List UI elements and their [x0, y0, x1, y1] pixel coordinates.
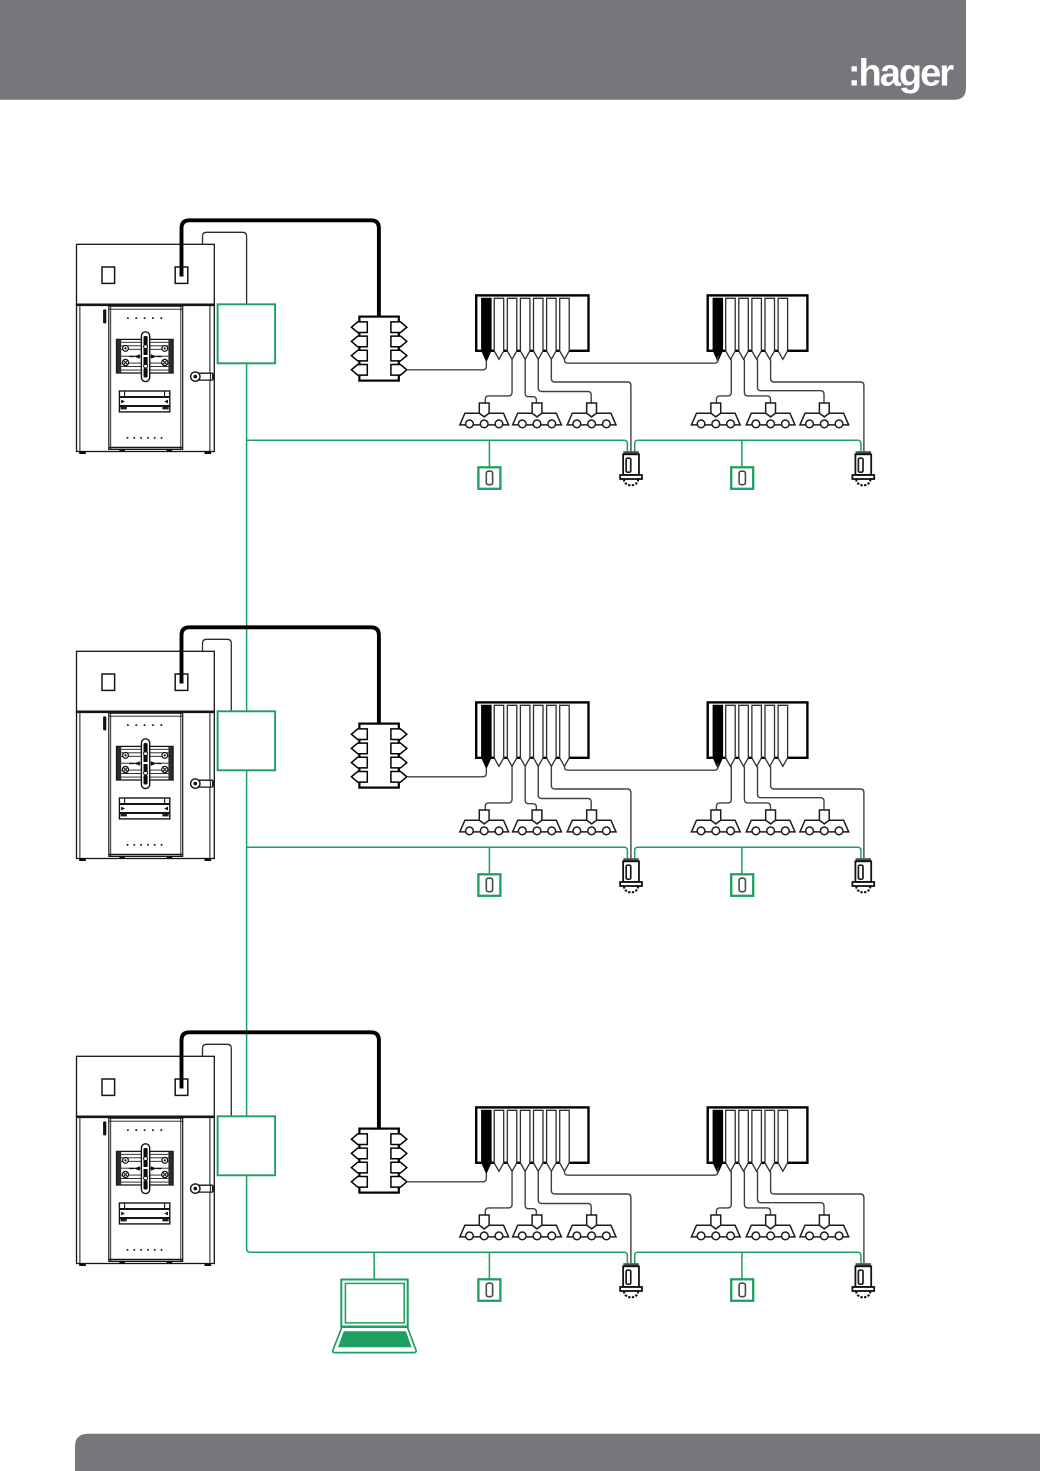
- board 2: door handle lock: [195, 780, 213, 787]
- board 3: terminal screws: [122, 1158, 167, 1178]
- board 2: pin 5 right: [391, 729, 407, 740]
- board 3: wire coupler to bank A bus module: [407, 1173, 487, 1182]
- board 3 load group 3: plug connector: [587, 1215, 597, 1229]
- board 1 load group 4: lamp circles: [697, 420, 734, 428]
- board 2 bank A: bus coupler module (black): [482, 705, 492, 768]
- board 2 load group 6: lamp circles: [806, 827, 843, 835]
- board 3: terminal capsule: [141, 1144, 149, 1194]
- board 2 load group 6: luminaire trapezoid: [800, 820, 849, 832]
- board 1: KNX bus line segment 1: [247, 440, 628, 451]
- board 1: wire coupler to bank A bus module: [407, 361, 487, 370]
- board 2 load group 4: lamp circles: [697, 827, 734, 835]
- board 1: wire bank A module 5 to load group 3: [538, 359, 591, 403]
- board 2: ventilation dots top row: [127, 724, 162, 726]
- board 1: pin 3 left: [351, 350, 367, 361]
- board 1: line coupler body: [359, 317, 398, 381]
- board 2 load group 6: plug connector: [819, 810, 829, 824]
- board 3: pin 2 left: [351, 1148, 367, 1159]
- board 3: wire bank A module 7 to bank B bus module: [564, 1168, 717, 1175]
- board 3 load group 5: lamp circles: [752, 1232, 789, 1240]
- board 2 load group 1: lamp circles: [466, 827, 503, 835]
- board 1: cabinet feet: [79, 449, 211, 454]
- board 2: cabinet door panel: [109, 713, 183, 856]
- board 3: wire bank A module 4 to load group 2: [525, 1171, 536, 1215]
- board 1 bank A: output module 5: [534, 298, 544, 359]
- board 2: ventilation dots bottom row: [127, 844, 163, 846]
- board 3 bus tap 1: body: [623, 1266, 639, 1287]
- board 1 bus tap 2: flange: [852, 475, 874, 479]
- board 1 bus tap 1: body: [623, 454, 639, 475]
- board 3 load group 6: luminaire trapezoid: [800, 1225, 849, 1237]
- board 3: bus drop to switch 2: [741, 1252, 743, 1279]
- board 2 switch 1: wall switch (green square): [478, 874, 500, 896]
- board 1 bus tap 1: flange: [620, 475, 642, 479]
- board 1 load group 4: plug connector: [711, 403, 721, 417]
- board 1 load group 6: plug connector: [819, 403, 829, 417]
- board 1 bank B: module bank rail box: [708, 295, 808, 350]
- board 3 bank B: output module 4: [752, 1110, 762, 1171]
- board 1: door handle lock: [195, 373, 213, 380]
- board 2 bank A: output module 3: [507, 705, 517, 766]
- board 1 switch 1: rocker: [486, 471, 492, 485]
- board 3: cabinet main body: [77, 1116, 215, 1263]
- board 3 bank B: bus coupler module (black): [713, 1110, 723, 1173]
- board 1: pin 7 right: [391, 350, 407, 361]
- board 2: wire bank B module 5 to bus tap 2: [771, 766, 864, 858]
- board 2 bus tap 1: cap: [623, 858, 638, 861]
- board 2: wire bank B module 3 to load group 5: [744, 766, 770, 810]
- board 3: wire bank B module 5 to bus tap 2: [771, 1171, 864, 1263]
- KNX backbone trunk lower segment with corner onto bus 3: [247, 1175, 251, 1252]
- board 3 load group 1: luminaire trapezoid: [460, 1225, 509, 1237]
- board 2 bank B: output module 5: [765, 705, 775, 766]
- board 1 bank A: module bank rail box: [476, 295, 588, 350]
- board 2: wire bank A module 7 to bank B bus module: [564, 763, 717, 770]
- board 1 bus tap 1: cap: [623, 451, 638, 454]
- board 2 bank A: output module 7: [560, 705, 570, 766]
- board 2: line coupler body: [359, 724, 398, 788]
- board 3 switch 2: rocker: [739, 1283, 745, 1297]
- board 2 bank B: output module 2: [726, 705, 736, 766]
- board 2 load group 1: plug connector: [479, 810, 489, 824]
- board 3 load group 4: plug connector: [711, 1215, 721, 1229]
- board 2 bank A: output module 2: [494, 705, 504, 766]
- board 2: wire bank A module 6 to bus tap 1: [551, 766, 631, 858]
- board 1 bank B: output module 2: [726, 298, 736, 359]
- board 1 bank A: bus coupler module (black): [482, 298, 492, 361]
- board 1: mains supply cable (thick): [182, 220, 379, 316]
- board 2: wire bank B module 2 to load group 4: [716, 766, 731, 810]
- board 3 bank B: output module 6: [778, 1110, 788, 1171]
- board 1: ventilation dots top row: [127, 317, 162, 319]
- board 2: pin 3 left: [351, 757, 367, 768]
- board 1 bus tap 2: cap: [856, 451, 871, 454]
- board 3: wire bank B module 3 to load group 5: [744, 1171, 770, 1215]
- board 2: wire bank B module 4 to load group 6: [758, 766, 825, 810]
- board 3: knockout square right (cable entry): [175, 1079, 188, 1095]
- board 1 load group 5: luminaire trapezoid: [746, 413, 795, 425]
- board 3: bus interface box (green outline): [218, 1116, 276, 1175]
- KNX backbone trunk segment board2 to board3: [246, 770, 248, 1116]
- board 1: ventilation dots bottom row: [127, 437, 163, 439]
- board 1 bus tap 1: dome: [624, 479, 638, 485]
- board 2: door hinge latch: [103, 716, 106, 730]
- board 1: terminal screws: [122, 346, 167, 366]
- board 1 load group 4: luminaire trapezoid: [691, 413, 740, 425]
- board 3: meter window slot: [119, 1203, 169, 1224]
- board 2 bank B: output module 3: [739, 705, 749, 766]
- board 2 bank A: module bank rail box: [476, 702, 588, 757]
- board 3 bank A: output module 6: [547, 1110, 557, 1171]
- board 3: wire bank B module 4 to load group 6: [758, 1171, 825, 1215]
- board 3 bank B: output module 5: [765, 1110, 775, 1171]
- board 1: wire bank A module 3 to load group 1: [485, 359, 512, 403]
- board 2: wire bank A module 3 to load group 1: [485, 766, 512, 810]
- board 2 load group 1: luminaire trapezoid: [460, 820, 509, 832]
- board 3 load group 3: lamp circles: [573, 1232, 610, 1240]
- board 1 bank B: output module 4: [752, 298, 762, 359]
- board 3 bank A: output module 7: [560, 1110, 570, 1171]
- board 3: cabinet door panel: [109, 1118, 183, 1261]
- board 1 bank B: output module 6: [778, 298, 788, 359]
- board 1: wire bank A module 4 to load group 2: [525, 359, 536, 403]
- board 3: KNX bus line segment 2: [635, 1252, 861, 1263]
- board 1: wire bank B module 5 to bus tap 2: [771, 359, 864, 451]
- board 1 switch 1: wall switch (green square): [478, 467, 500, 489]
- board 3 bus tap 2: flange: [852, 1287, 874, 1291]
- board 1: cabinet door panel: [109, 306, 183, 449]
- board 3 bus tap 2: body: [855, 1266, 871, 1287]
- board 3 load group 1: lamp circles: [466, 1232, 503, 1240]
- board 2: pin 2 left: [351, 743, 367, 754]
- board 2: pin 4 left: [351, 772, 367, 783]
- board 3: door handle lock: [195, 1185, 213, 1192]
- board 2 bus tap 2: window: [858, 865, 863, 879]
- board 2: knockout square right (cable entry): [175, 674, 188, 690]
- board 3 load group 4: lamp circles: [697, 1232, 734, 1240]
- board 1 bank B: output module 3: [739, 298, 749, 359]
- board 1 bank A: output module 3: [507, 298, 517, 359]
- board 1 load group 2: lamp circles: [518, 420, 555, 428]
- board 1: door hinge latch: [103, 309, 106, 323]
- board 2 bank A: output module 6: [547, 705, 557, 766]
- board 3: mains supply cable (thick): [182, 1032, 379, 1128]
- board 2: meter terminal block: [117, 746, 174, 780]
- board 1: bus drop to switch 2: [741, 440, 743, 467]
- board 3 bank A: output module 2: [494, 1110, 504, 1171]
- board 3: pin 5 right: [391, 1134, 407, 1145]
- laptop keyboard (green fill): [338, 1331, 412, 1347]
- board 3 load group 2: luminaire trapezoid: [513, 1225, 562, 1237]
- board 2 load group 5: luminaire trapezoid: [746, 820, 795, 832]
- board 2 bus tap 1: dome: [624, 886, 638, 892]
- board 3: cabinet top terminal compartment: [77, 1056, 215, 1116]
- board 3 load group 4: luminaire trapezoid: [691, 1225, 740, 1237]
- board 2 switch 2: wall switch (green square): [731, 874, 753, 896]
- footer bar: [75, 1434, 1040, 1471]
- board 1 load group 3: plug connector: [587, 403, 597, 417]
- board 3 load group 3: luminaire trapezoid: [567, 1225, 616, 1237]
- board 1 load group 3: luminaire trapezoid: [567, 413, 616, 425]
- board 1 bus tap 2: body: [855, 454, 871, 475]
- board 3: pin 6 right: [391, 1148, 407, 1159]
- board 1: wire bank A module 7 to bank B bus module: [564, 356, 717, 363]
- board 1 load group 1: plug connector: [479, 403, 489, 417]
- board 3 bus tap 1: window: [626, 1270, 631, 1284]
- board 2: bus interface box (green outline): [218, 711, 276, 770]
- board 3: pointer marks: [134, 1166, 156, 1170]
- header bar: [0, 0, 966, 100]
- board 2 load group 2: luminaire trapezoid: [513, 820, 562, 832]
- board 1: pointer marks: [134, 354, 156, 358]
- board 2: mains supply cable (thick): [182, 627, 379, 723]
- board 1 load group 2: plug connector: [532, 403, 542, 417]
- board 2: pin 7 right: [391, 757, 407, 768]
- board 2: knockout square left: [102, 674, 115, 690]
- board 3: wire bank A module 3 to load group 1: [485, 1171, 512, 1215]
- board 2 load group 3: luminaire trapezoid: [567, 820, 616, 832]
- board 3: bus drop to switch 1: [488, 1252, 490, 1279]
- board 2: KNX bus line segment 1: [247, 847, 628, 858]
- board 3 bus tap 2: cap: [856, 1263, 871, 1266]
- board 1 bank A: output module 7: [560, 298, 570, 359]
- board 2 switch 2: rocker: [739, 878, 745, 892]
- board 2 bank B: output module 4: [752, 705, 762, 766]
- board 3 bank A: output module 5: [534, 1110, 544, 1171]
- board 2 load group 4: plug connector: [711, 810, 721, 824]
- board 2 bank B: bus coupler module (black): [713, 705, 723, 768]
- board 2: pin 8 right: [391, 772, 407, 783]
- board 1: wire bank B module 3 to load group 5: [744, 359, 770, 403]
- board 2: KNX bus line segment 2: [635, 847, 861, 858]
- board 2: cabinet main body: [77, 711, 215, 858]
- board 2: wire bank A module 5 to load group 3: [538, 766, 591, 810]
- board 1: terminal capsule: [141, 332, 149, 382]
- board 2: pointer marks: [134, 761, 156, 765]
- board 3: ventilation dots top row: [127, 1129, 162, 1131]
- board 2: control wire cabinet to coupler box: [203, 639, 232, 711]
- board 1: wire bank A module 6 to bus tap 1: [551, 359, 631, 451]
- board 1: wire bank B module 2 to load group 4: [716, 359, 731, 403]
- board 3: control wire cabinet to coupler box: [203, 1044, 232, 1116]
- board 2 load group 4: luminaire trapezoid: [691, 820, 740, 832]
- board 3: wire bank B module 2 to load group 4: [716, 1171, 731, 1215]
- board 3 bank B: output module 3: [739, 1110, 749, 1171]
- board 3 switch 2: wall switch (green square): [731, 1279, 753, 1301]
- board 2 bus tap 2: dome: [856, 886, 870, 892]
- board 3 switch 1: rocker: [486, 1283, 492, 1297]
- board 3 load group 6: plug connector: [819, 1215, 829, 1229]
- board 3 bank B: output module 2: [726, 1110, 736, 1171]
- board 2: wire coupler to bank A bus module: [407, 768, 487, 777]
- board 3 bus tap 1: cap: [623, 1263, 638, 1266]
- board 1 load group 6: luminaire trapezoid: [800, 413, 849, 425]
- board 3 bank A: bus coupler module (black): [482, 1110, 492, 1173]
- KNX backbone trunk segment board1 to board2: [246, 363, 248, 711]
- board 3: pin 3 left: [351, 1162, 367, 1173]
- board 3: meter terminal block: [117, 1151, 174, 1185]
- board 2 load group 2: plug connector: [532, 810, 542, 824]
- board 2 load group 3: lamp circles: [573, 827, 610, 835]
- board 1 bank A: output module 4: [520, 298, 530, 359]
- board 2 bank B: module bank rail box: [708, 702, 808, 757]
- laptop (ETS programming PC) lid: [341, 1280, 407, 1327]
- board 2 switch 1: rocker: [486, 878, 492, 892]
- board 2 bus tap 1: window: [626, 865, 631, 879]
- board 3: pin 1 left: [351, 1134, 367, 1145]
- board 3: door hinge latch: [103, 1121, 106, 1135]
- board 2: bus drop to switch 1: [488, 847, 490, 874]
- board 1: cabinet main body: [77, 304, 215, 451]
- board 2 load group 5: lamp circles: [752, 827, 789, 835]
- board 1 bus tap 2: window: [858, 458, 863, 472]
- board 3 bank A: module bank rail box: [476, 1107, 588, 1162]
- board 1: knockout square right (cable entry): [175, 267, 188, 283]
- board 1 load group 5: lamp circles: [752, 420, 789, 428]
- board 1 bank A: output module 6: [547, 298, 557, 359]
- board 3 load group 5: luminaire trapezoid: [746, 1225, 795, 1237]
- board 2: pin 6 right: [391, 743, 407, 754]
- board 2: meter window slot: [119, 798, 169, 819]
- board 1 bus tap 1: window: [626, 458, 631, 472]
- board 1: cabinet top terminal compartment: [77, 244, 215, 304]
- board 2 bank A: output module 5: [534, 705, 544, 766]
- board 1 load group 2: luminaire trapezoid: [513, 413, 562, 425]
- board 3: line coupler body: [359, 1129, 398, 1193]
- board 1 switch 2: wall switch (green square): [731, 467, 753, 489]
- board 3: pin 4 left: [351, 1177, 367, 1188]
- board 1: knockout square left: [102, 267, 115, 283]
- board 1: bus drop to switch 1: [488, 440, 490, 467]
- laptop base: [333, 1327, 416, 1353]
- board 3 load group 2: lamp circles: [518, 1232, 555, 1240]
- board 1: bus interface box (green outline): [218, 304, 276, 363]
- board 2: terminal capsule: [141, 739, 149, 789]
- board 3 bus tap 2: dome: [856, 1291, 870, 1297]
- board 2: cabinet top terminal compartment: [77, 651, 215, 711]
- board 1 load group 1: luminaire trapezoid: [460, 413, 509, 425]
- board 3 bus tap 1: flange: [620, 1287, 642, 1291]
- board 1 load group 1: lamp circles: [466, 420, 503, 428]
- board 3 bank B: module bank rail box: [708, 1107, 808, 1162]
- board 1: pin 1 left: [351, 322, 367, 333]
- board 3: knockout square left: [102, 1079, 115, 1095]
- board 2 load group 5: plug connector: [766, 810, 776, 824]
- board 1 bank A: output module 2: [494, 298, 504, 359]
- board 1: pin 4 left: [351, 365, 367, 376]
- board 2: terminal screws: [122, 753, 167, 773]
- board 3: wire bank A module 5 to load group 3: [538, 1171, 591, 1215]
- board 2 bank A: output module 4: [520, 705, 530, 766]
- board 1: pin 5 right: [391, 322, 407, 333]
- board 2: pin 1 left: [351, 729, 367, 740]
- board 1 switch 2: rocker: [739, 471, 745, 485]
- board 1: meter window slot: [119, 391, 169, 412]
- board 3: ventilation dots bottom row: [127, 1249, 163, 1251]
- board 1: pin 6 right: [391, 336, 407, 347]
- board 2 bus tap 2: body: [855, 861, 871, 882]
- board 3: wire bank A module 6 to bus tap 1: [551, 1171, 631, 1263]
- board 1 load group 5: plug connector: [766, 403, 776, 417]
- board 3: cabinet feet: [79, 1261, 211, 1266]
- board 1 bus tap 2: dome: [856, 479, 870, 485]
- board 1: pin 2 left: [351, 336, 367, 347]
- board 3 bank A: output module 3: [507, 1110, 517, 1171]
- board 3: pin 8 right: [391, 1177, 407, 1188]
- board 1 load group 3: lamp circles: [573, 420, 610, 428]
- board 3 bank A: output module 4: [520, 1110, 530, 1171]
- board 3 load group 1: plug connector: [479, 1215, 489, 1229]
- board 2 bus tap 1: body: [623, 861, 639, 882]
- board 3 load group 6: lamp circles: [806, 1232, 843, 1240]
- board 2 bank B: output module 6: [778, 705, 788, 766]
- board 3 switch 1: wall switch (green square): [478, 1279, 500, 1301]
- board 2 load group 3: plug connector: [587, 810, 597, 824]
- board 3 bus tap 2: window: [858, 1270, 863, 1284]
- board 3 bus tap 1: dome: [624, 1291, 638, 1297]
- board 3 load group 5: plug connector: [766, 1215, 776, 1229]
- board 2 load group 2: lamp circles: [518, 827, 555, 835]
- svg-text::hager: :hager: [848, 53, 954, 95]
- board 1: KNX bus line segment 2: [635, 440, 861, 451]
- board 2: cabinet feet: [79, 856, 211, 861]
- board 1 bank B: output module 5: [765, 298, 775, 359]
- board 2: bus drop to switch 2: [741, 847, 743, 874]
- board 1: meter terminal block: [117, 339, 174, 373]
- board 3 load group 2: plug connector: [532, 1215, 542, 1229]
- board 1: control wire cabinet to coupler box: [203, 232, 247, 304]
- board 2 bus tap 1: flange: [620, 882, 642, 886]
- board 2: wire bank A module 4 to load group 2: [525, 766, 536, 810]
- board 1 bank B: bus coupler module (black): [713, 298, 723, 361]
- bus drop to laptop: [373, 1252, 375, 1279]
- board 1: pin 8 right: [391, 365, 407, 376]
- board 3: pin 7 right: [391, 1162, 407, 1173]
- board 1: wire bank B module 4 to load group 6: [758, 359, 825, 403]
- board 1 load group 6: lamp circles: [806, 420, 843, 428]
- board 2 bus tap 2: cap: [856, 858, 871, 861]
- board 3: KNX bus line segment 1: [251, 1252, 628, 1263]
- board 2 bus tap 2: flange: [852, 882, 874, 886]
- laptop screen: [345, 1283, 404, 1323]
